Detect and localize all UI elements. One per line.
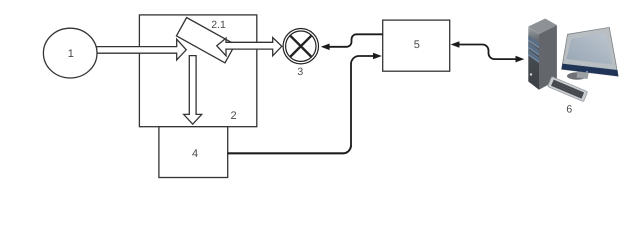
box 2 (large enclosure) [139,15,256,127]
svg-text:2.1: 2.1 [211,19,226,31]
source circle 1 [43,28,97,78]
beam splitter 2.1 (rotated rect) [176,18,235,63]
wire box5 to mixer 3 (S-jog) [328,34,383,47]
svg-text:3: 3 [297,66,303,78]
box 4 [159,127,228,178]
block arrow A (source 1 to 2.1) [97,39,187,60]
monitor bottom band [562,64,619,77]
monitor base [567,72,587,80]
box 5 [383,20,450,71]
block arrow B (double-headed, 2.1 to mixer 3) [217,38,282,56]
svg-text:4: 4 [192,148,198,160]
wire box4 to box5 (up elbow) [228,56,375,153]
svg-text:2: 2 [230,110,236,122]
monitor stand [577,70,590,79]
block arrow down (2.1 to box4) [184,56,202,125]
power button [530,73,532,75]
tower side face [539,25,557,90]
keyboard [548,77,588,102]
arrowhead into box5 left [373,53,382,60]
mixer 3 (circle with X, double ring) [283,29,318,64]
svg-text:5: 5 [414,39,420,51]
arrowhead into box5 right [451,41,460,48]
tower drive stripes [528,35,539,48]
monitor screen [566,33,612,65]
svg-text:6: 6 [566,103,572,115]
arrowhead into mixer 3 [321,44,330,51]
svg-text:1: 1 [68,48,74,60]
computer 6 [528,19,618,102]
wire box5 to computer 6 (S-jog) [457,45,517,60]
arrowhead into computer [516,56,525,63]
tower front face [528,27,539,90]
monitor frame [562,27,619,76]
tower top face [528,19,557,35]
